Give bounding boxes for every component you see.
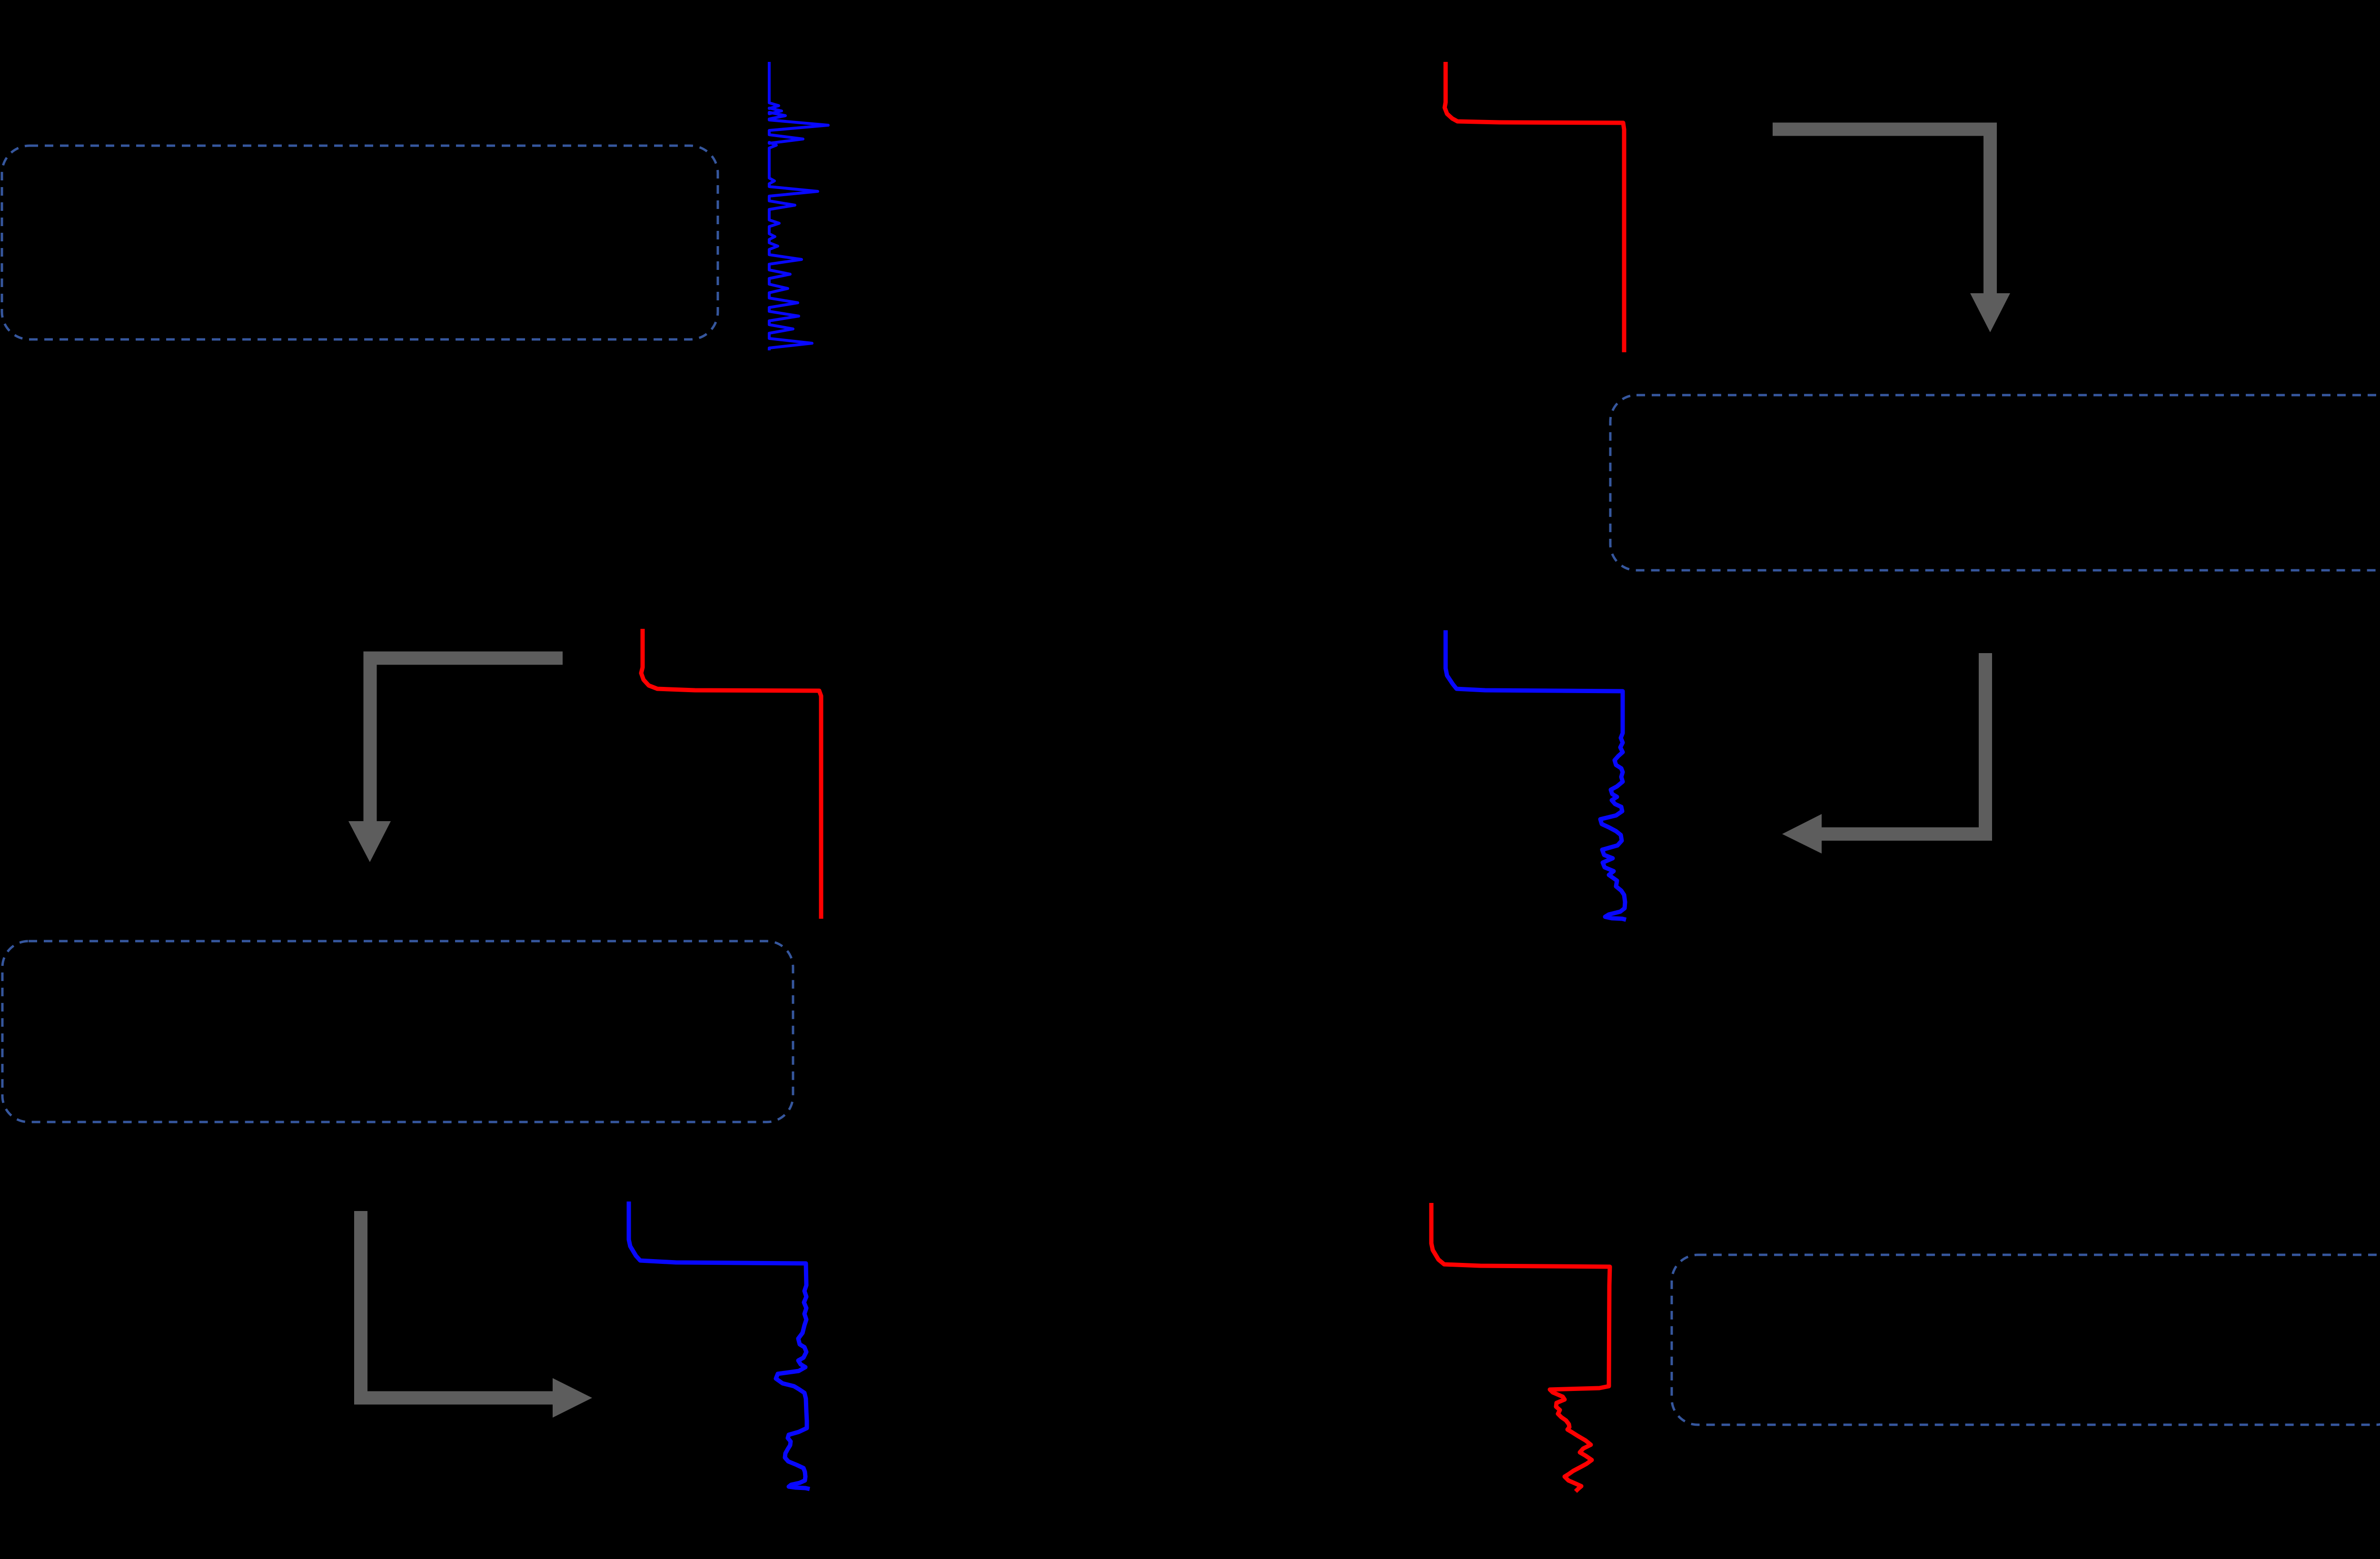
TGA curve red 3 (bottom right) — [1431, 1203, 1610, 1491]
gray arrow 3 (middle right, left) — [1782, 653, 1985, 854]
dashed box 4 (bottom right) — [1672, 1255, 2380, 1425]
dashed box 1 (top left) — [2, 146, 718, 339]
TGA curve blue 3 (bottom left) — [629, 1202, 810, 1489]
XRD pattern (blue spectrum) — [769, 62, 828, 350]
dashed box 2 (middle right) — [1610, 395, 2380, 570]
TGA curve blue 2 (middle right) — [1446, 630, 1626, 920]
TGA curve red 1 (top) — [1445, 62, 1624, 352]
gray arrow 2 (middle left, down) — [348, 658, 563, 863]
dashed box 3 (middle left) — [2, 941, 793, 1122]
gray arrow 1 (top right, down) — [1773, 129, 2010, 333]
gray arrow 4 (bottom left, right) — [361, 1211, 592, 1418]
TGA curve red 2 (middle) — [641, 629, 821, 919]
